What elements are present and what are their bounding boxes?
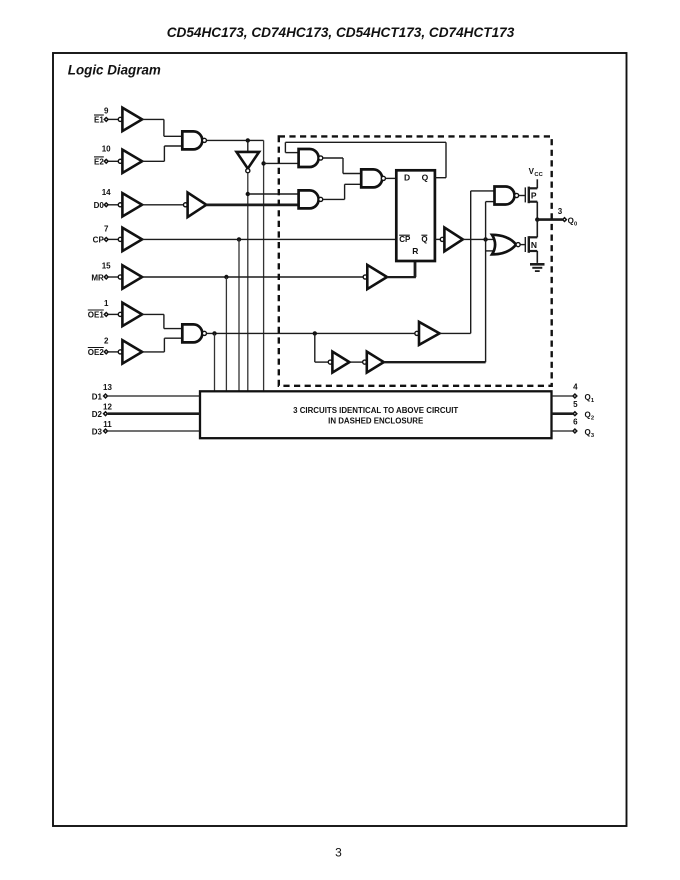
wire D3 to block <box>108 430 200 432</box>
wire MR to reset buffer <box>142 276 363 278</box>
inverter Q-bar input bubble <box>440 237 444 241</box>
input D2 pin 12 terminal <box>104 412 108 416</box>
buffer OE1 input bubble <box>118 312 122 316</box>
wire Q-bar to inverter <box>435 238 440 240</box>
buffer D0 second stage input bubble <box>183 203 187 207</box>
svg-text:Q: Q <box>421 235 427 244</box>
wire N source to ground <box>536 251 538 263</box>
svg-text:IN DASHED ENCLOSURE: IN DASHED ENCLOSURE <box>328 416 423 425</box>
inverter Q (output data) <box>444 228 462 252</box>
wire to NOR lower input <box>486 250 500 252</box>
net E vertical (to identical circuits) <box>263 140 265 391</box>
wire D2 to block <box>108 412 200 415</box>
svg-text:CP: CP <box>399 235 411 244</box>
block: 3 identical circuits <box>200 391 552 438</box>
input E2 pin 10 terminal <box>104 159 108 163</box>
wire OE2 terminal to buffer <box>108 351 118 353</box>
junction E to latch NAND1 <box>261 161 265 165</box>
svg-text:D3: D3 <box>92 427 103 436</box>
svg-text:3: 3 <box>335 845 342 859</box>
svg-text:MR: MR <box>91 273 104 282</box>
svg-text:Logic Diagram: Logic Diagram <box>68 62 161 77</box>
buffer CP input bubble <box>118 237 122 241</box>
transistor P (PMOS) <box>524 187 526 202</box>
wire to NAND lower input <box>486 201 495 203</box>
buffer E1 (inverting input) <box>122 108 142 131</box>
svg-text:3 CIRCUITS IDENTICAL TO ABOVE: 3 CIRCUITS IDENTICAL TO ABOVE CIRCUIT <box>293 406 458 415</box>
svg-text:E1: E1 <box>94 116 104 125</box>
D flip-flop U1 <box>396 170 435 261</box>
wire CP terminal to buffer <box>108 238 118 240</box>
wire E1 terminal to buffer <box>108 118 118 120</box>
svg-text:5: 5 <box>573 400 578 409</box>
wire OE1 terminal to buffer <box>108 313 118 315</box>
wire NAND-E output <box>207 139 264 141</box>
svg-text:3: 3 <box>591 433 595 439</box>
svg-text:11: 11 <box>103 420 112 429</box>
wire OE to double inverter <box>314 333 316 362</box>
svg-text:CC: CC <box>534 172 543 178</box>
buffer OE1 (inverting input) <box>122 303 142 326</box>
wire OE double-inverted to NOR (thick) <box>384 361 486 363</box>
wire between double inverters <box>349 361 362 363</box>
wire E1 buffer to NAND-E <box>142 118 164 120</box>
svg-text:Q: Q <box>568 216 574 225</box>
wire E-bar into NAND2 <box>248 193 299 195</box>
svg-text:P: P <box>531 191 537 201</box>
wire OE1 buffer to NAND-OE <box>142 313 164 315</box>
svg-text:7: 7 <box>104 225 109 234</box>
NAND gate output P-driver <box>495 187 515 205</box>
output Q3 pin 6 terminal <box>573 429 577 433</box>
inverter OE single <box>419 322 440 345</box>
wire OE inverted to NAND <box>440 332 471 334</box>
svg-text:2: 2 <box>591 416 594 422</box>
svg-text:15: 15 <box>102 261 111 270</box>
inverter OE-b <box>367 352 384 373</box>
svg-text:D0: D0 <box>94 201 105 210</box>
junction CP bus <box>237 237 241 241</box>
svg-text:Q: Q <box>585 411 591 420</box>
svg-text:Q: Q <box>585 393 591 402</box>
ground <box>530 263 545 266</box>
inverter OE-a input bubble <box>328 360 332 364</box>
dashed enclosure <box>279 136 552 385</box>
input CP pin 7 terminal <box>104 238 108 242</box>
input D1 pin 13 terminal <box>104 394 108 398</box>
svg-text:E2: E2 <box>94 158 104 167</box>
input OE2 pin 2 terminal <box>104 350 108 354</box>
buffer OE2 input bubble <box>118 350 122 354</box>
buffer MR input bubble <box>118 275 122 279</box>
output Q1 pin 4 terminal <box>573 394 577 398</box>
svg-text:14: 14 <box>102 188 111 197</box>
net OE vertical (to identical circuits) <box>214 333 216 391</box>
junction OE to lower inverter pair <box>313 331 317 335</box>
buffer D0 (inverting input) <box>122 193 142 216</box>
wire MR buffer to R input <box>387 276 416 278</box>
wire D1 to block <box>108 395 200 397</box>
svg-text:D: D <box>404 173 410 183</box>
svg-text:10: 10 <box>102 145 111 154</box>
junction E output to inverter <box>246 138 250 142</box>
wire OE2 buffer to NAND-OE <box>142 351 164 353</box>
inverter E (down-pointing) <box>237 152 260 169</box>
svg-text:CD54HC173, CD74HC173, CD54HCT1: CD54HC173, CD74HC173, CD54HCT173, CD74HC… <box>167 25 515 40</box>
wire NAND3 to D input <box>386 177 397 179</box>
svg-text:12: 12 <box>103 403 112 412</box>
buffer CP (inverting input) <box>122 228 142 251</box>
buffer E2 (inverting input) <box>122 150 142 173</box>
wire D0 buffer to second buffer <box>142 204 183 206</box>
junction OE bus <box>212 331 216 335</box>
output Q2 pin 5 terminal <box>573 412 577 416</box>
svg-text:OE2: OE2 <box>88 348 105 357</box>
NOR gate output N-driver <box>492 235 516 255</box>
inverter OE single input bubble <box>415 331 419 335</box>
NAND gate E (enable) <box>182 131 202 149</box>
NAND gate 2 (latch) <box>299 190 319 208</box>
svg-text:1: 1 <box>591 398 595 404</box>
wire Q feedback into NAND1 <box>285 141 446 143</box>
wire NOR to N gate <box>520 244 525 246</box>
input MR pin 15 terminal <box>104 275 108 279</box>
svg-text:OE1: OE1 <box>88 311 105 320</box>
Vcc stub <box>536 179 538 188</box>
wire E into NAND1 <box>264 162 299 164</box>
buffer D0 second stage <box>188 193 207 218</box>
NAND gate 3 (D driver) <box>361 169 382 187</box>
svg-text:CP: CP <box>93 236 105 245</box>
junction E-bar to latch NAND2 <box>246 192 250 196</box>
buffer MR (reset driver) <box>367 265 387 289</box>
svg-text:4: 4 <box>573 382 578 391</box>
svg-text:R: R <box>412 246 418 256</box>
buffer MR input bubble <box>363 275 367 279</box>
wire R input vertical (thick) <box>414 261 417 277</box>
wire E2 buffer to NAND-E <box>142 160 164 162</box>
wire output node to Q0 (thick) <box>537 218 562 221</box>
output Q0 pin 3 terminal <box>563 218 567 222</box>
wire block to Q3 <box>552 430 573 432</box>
buffer E2 input bubble <box>118 159 122 163</box>
buffer OE2 (inverting input) <box>122 340 142 363</box>
svg-text:N: N <box>531 240 537 250</box>
wire NAND1 to NAND3 <box>323 157 343 159</box>
svg-text:Q: Q <box>422 173 429 183</box>
wire Q output feedback <box>435 177 446 179</box>
buffer E1 input bubble <box>118 117 122 121</box>
buffer D0 input bubble <box>118 203 122 207</box>
wire MR terminal to buffer <box>108 276 118 278</box>
input D0 pin 14 terminal <box>104 203 108 207</box>
wire D0 data to NAND2 (thick) <box>206 204 299 207</box>
wire NAND-OE output <box>207 332 417 334</box>
wire NAND to P gate <box>519 195 526 197</box>
wire output node to N drain <box>536 220 538 238</box>
svg-text:3: 3 <box>558 207 563 216</box>
net E-bar vertical (to identical circuits) <box>247 173 249 391</box>
wire block to Q1 <box>552 395 573 397</box>
inverter OE-b input bubble <box>363 360 367 364</box>
svg-text:2: 2 <box>104 336 109 345</box>
input OE1 pin 1 terminal <box>104 313 108 317</box>
wire E down to inverter <box>247 140 249 152</box>
wire Q to output gates <box>463 238 500 240</box>
svg-text:6: 6 <box>573 418 578 427</box>
net CP vertical (to identical circuits) <box>238 239 240 391</box>
inverter OE-a <box>332 352 349 373</box>
junction MR bus <box>224 275 228 279</box>
junction Q to NAND <box>483 237 487 241</box>
input D3 pin 11 terminal <box>104 429 108 433</box>
transistor N (NMOS) <box>524 237 526 252</box>
svg-text:9: 9 <box>104 107 109 116</box>
wire NAND2 to NAND3 <box>323 198 345 200</box>
svg-text:D2: D2 <box>92 410 103 419</box>
buffer MR (inverting input) <box>122 265 142 288</box>
wire E2 terminal to buffer <box>108 160 118 162</box>
wire P source to output node <box>536 202 538 220</box>
net MR vertical (to identical circuits) <box>225 277 227 391</box>
NAND gate OE (output enable) <box>182 324 202 342</box>
NAND gate 1 (latch) <box>299 149 319 167</box>
svg-text:D1: D1 <box>92 392 103 401</box>
svg-text:0: 0 <box>574 221 577 227</box>
junction output node <box>535 217 539 221</box>
svg-text:Q: Q <box>585 428 591 437</box>
wire block to Q2 <box>552 412 573 415</box>
input E1 pin 9 terminal <box>104 118 108 122</box>
wire CP to flip-flop <box>142 238 396 240</box>
wire D0 terminal to buffer <box>108 204 118 206</box>
page border frame <box>53 53 627 826</box>
svg-text:13: 13 <box>103 383 112 392</box>
svg-text:1: 1 <box>104 299 109 308</box>
